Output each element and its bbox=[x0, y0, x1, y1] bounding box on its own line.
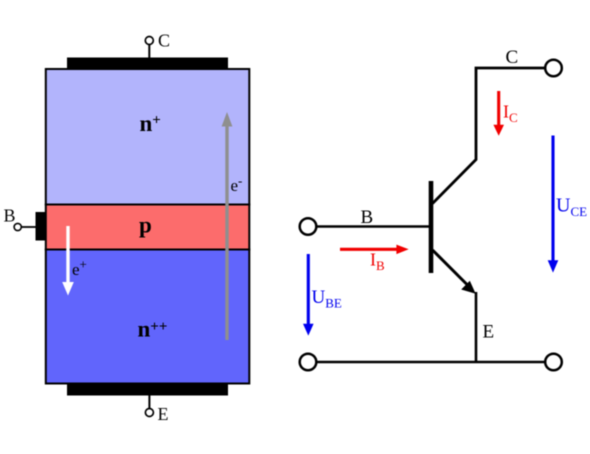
collector branch bbox=[433, 68, 546, 204]
emitter contact bar (bottom) bbox=[67, 384, 228, 396]
base terminal circle bbox=[14, 223, 21, 230]
electron flow arrow (gray) bbox=[225, 125, 228, 340]
transistor base bar bbox=[429, 181, 434, 273]
svg-text:C: C bbox=[506, 47, 519, 68]
svg-text:B: B bbox=[4, 206, 16, 226]
base terminal lead bbox=[21, 226, 36, 228]
svg-text:E: E bbox=[483, 322, 495, 343]
p base region bbox=[46, 205, 250, 250]
voltage arrow UCE (blue) bbox=[551, 136, 554, 263]
svg-text:E: E bbox=[158, 404, 169, 424]
n++ emitter region bbox=[46, 250, 250, 384]
base terminal circle (schematic) bbox=[300, 218, 317, 235]
collector terminal circle bbox=[145, 37, 153, 45]
collector terminal circle (schematic) bbox=[545, 60, 562, 77]
n+ collector region bbox=[46, 69, 250, 205]
svg-text:p: p bbox=[139, 213, 152, 238]
collector terminal lead bbox=[148, 45, 150, 59]
bottom wire bbox=[317, 361, 545, 364]
base contact block (left) bbox=[36, 212, 46, 241]
emitter terminal circle bbox=[145, 409, 153, 417]
emitter-side bottom terminal circle bbox=[300, 354, 317, 371]
current arrow IC (red) bbox=[497, 91, 500, 126]
voltage arrow UBE (blue) bbox=[307, 254, 310, 325]
collector contact bar (top) bbox=[67, 58, 228, 69]
base wire bbox=[317, 225, 432, 228]
svg-text:B: B bbox=[361, 207, 374, 228]
collector-side bottom terminal circle bbox=[545, 354, 562, 371]
current arrow IB (red) bbox=[340, 248, 398, 251]
emitter terminal lead bbox=[148, 396, 150, 409]
emitter branch with arrow bbox=[433, 250, 468, 285]
svg-text:C: C bbox=[158, 31, 170, 51]
hole flow arrow (white) bbox=[66, 226, 69, 283]
